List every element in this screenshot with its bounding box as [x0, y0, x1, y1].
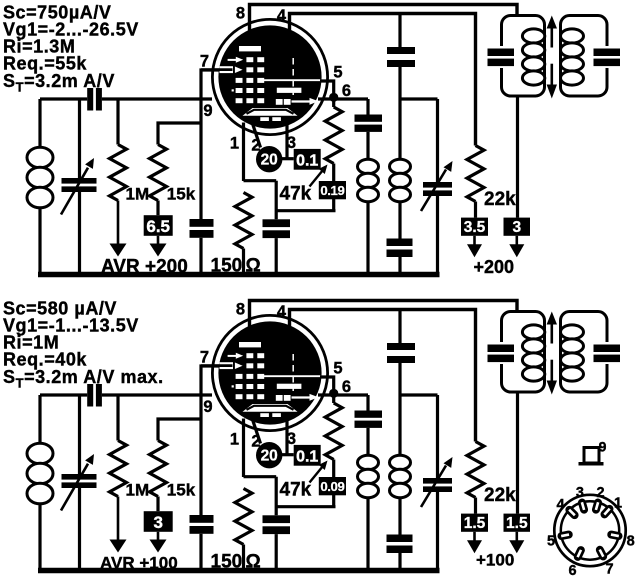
node pin6 junction dot [329, 93, 338, 102]
wire pin9 drop [199, 395, 202, 515]
svg-text:3: 3 [153, 513, 162, 532]
capacitor C6 (screen bypass) [387, 47, 415, 67]
resistor R4 47k [325, 97, 342, 210]
svg-text:1: 1 [230, 431, 239, 449]
wire pin6 to anode tank [318, 97, 368, 100]
wire transformer bottom drop [516, 392, 519, 514]
tube V1 (pentode) [201, 19, 328, 134]
svg-text:9: 9 [599, 439, 607, 455]
wire screen cap stub [398, 14, 401, 48]
wire 20 to 0.1 box [282, 157, 294, 160]
svg-text:8: 8 [627, 534, 635, 550]
wire anode rail (pin8) [250, 301, 518, 330]
wire pin3 lead [285, 123, 288, 159]
svg-text:8: 8 [236, 5, 245, 23]
svg-text:7: 7 [200, 53, 209, 71]
coil L1 (antenna coil) [27, 395, 53, 570]
svg-text:20: 20 [261, 448, 278, 465]
svg-text:3: 3 [287, 134, 296, 152]
value box 3 (screen current) [144, 511, 173, 552]
wire pin6 to anode tank [318, 393, 368, 396]
wire screen rail (pin4) [290, 310, 476, 442]
value box 1.5 [461, 514, 488, 554]
coil L5 (secondary) [561, 325, 584, 339]
annotation arrow to 47k [310, 461, 328, 483]
svg-text:0.19: 0.19 [320, 183, 344, 198]
svg-text:15k: 15k [167, 185, 196, 204]
socket pin 4 [564, 504, 581, 521]
coil L2 (interstage primary) [358, 132, 379, 274]
svg-text:4: 4 [557, 497, 565, 513]
wire ground bus [38, 272, 440, 278]
capacitor C5 (anode) [355, 395, 383, 428]
svg-text:1.5: 1.5 [506, 515, 528, 532]
IF transformer T1 right tank [561, 16, 608, 97]
tube V1 (pentode) [201, 315, 328, 430]
svg-text:0.1: 0.1 [296, 152, 318, 169]
coil L5 (secondary) [561, 29, 584, 43]
wire: input tank top [40, 97, 212, 100]
value box 0.1 [294, 149, 321, 170]
capacitor C6 (screen bypass) [387, 343, 415, 363]
svg-text:4: 4 [277, 7, 287, 25]
resistor R2 15k [150, 419, 202, 511]
variable capacitor C1 (tuning) [61, 99, 97, 274]
svg-text:+100: +100 [476, 551, 514, 570]
wire jog to trimmer [400, 97, 438, 100]
value box 3.5 [461, 218, 488, 258]
svg-text:3.5: 3.5 [464, 219, 486, 236]
resistor R5 22k (screen dropper) [467, 146, 484, 218]
wire pin2 lead [253, 421, 261, 444]
resistor R5 22k (screen dropper) [467, 442, 484, 514]
svg-text:6.5: 6.5 [146, 217, 170, 236]
annotation arrow to 47k [310, 165, 328, 187]
coupling arrow down [547, 64, 557, 99]
value box 0.1 [294, 445, 321, 466]
capacitor C2 (coupling) [87, 88, 102, 111]
capacitor C7 (L3 bottom) [387, 535, 413, 571]
wire pin5 [320, 81, 334, 93]
wire pin5 [320, 377, 334, 389]
value box 6.5 (screen current) [144, 215, 173, 256]
svg-text:5: 5 [333, 64, 342, 82]
wire pin2 lead [253, 125, 261, 148]
coil L4 (primary) [522, 29, 544, 43]
svg-text:3: 3 [512, 219, 521, 236]
IF transformer T1 right tank [561, 312, 608, 393]
pin cap 20 (circle) [256, 146, 282, 172]
wire transformer bottom drop [516, 96, 519, 218]
coil L2 (interstage primary) [358, 428, 379, 570]
socket pin 6 [572, 545, 586, 562]
capacitor C10 (secondary tank) [594, 345, 621, 363]
wire ground bus [38, 568, 440, 574]
svg-text:47k: 47k [280, 184, 312, 205]
IF transformer T1 left tank [502, 16, 545, 97]
svg-text:+200: +200 [474, 257, 515, 277]
value box 1.5 [504, 514, 531, 554]
variable capacitor C8 (trimmer) [421, 395, 453, 570]
svg-text:1.5: 1.5 [464, 515, 486, 532]
value box 3 [504, 218, 531, 258]
svg-text:2: 2 [251, 137, 260, 155]
wire pin3 lead [285, 419, 288, 455]
svg-text:3: 3 [576, 485, 584, 501]
wire cathode network [244, 181, 336, 220]
svg-text:6: 6 [342, 378, 351, 396]
svg-text:5: 5 [547, 534, 555, 550]
coil L1 (antenna coil) [27, 99, 53, 274]
socket pin 5 [557, 530, 574, 541]
svg-text:20: 20 [261, 152, 278, 169]
svg-text:9: 9 [203, 102, 212, 120]
svg-text:22k: 22k [484, 189, 516, 210]
value box 0.19 [319, 181, 346, 199]
wire pin9 drop [199, 99, 202, 219]
socket pin 7 [594, 544, 608, 561]
svg-text:ST=3.2m A/V max.: ST=3.2m A/V max. [3, 367, 164, 391]
coupling arrow down [547, 360, 557, 395]
svg-text:0.1: 0.1 [296, 448, 318, 465]
resistor R3 150 ohm (cathode) [235, 193, 252, 275]
svg-text:1M: 1M [126, 481, 150, 500]
svg-text:9: 9 [203, 398, 212, 416]
wire cathode network [244, 477, 336, 516]
resistor R1 1M (grid leak) [110, 395, 127, 553]
socket pin 1 [599, 503, 615, 520]
variable capacitor C8 (trimmer) [421, 99, 453, 274]
coil L4 (primary) [522, 325, 544, 339]
resistor R2 15k [150, 123, 202, 215]
resistor R1 1M (grid leak) [110, 99, 127, 257]
tube socket pinout (bottom view) [554, 495, 625, 566]
svg-text:8: 8 [236, 301, 245, 319]
svg-text:0.09: 0.09 [320, 479, 344, 494]
wire pin7 riser [201, 70, 219, 99]
svg-text:15k: 15k [167, 481, 196, 500]
value box 0.09 [319, 477, 346, 495]
capacitor C4 (cathode bypass right) [263, 219, 291, 274]
svg-text:2: 2 [251, 433, 260, 451]
svg-text:6: 6 [342, 82, 351, 100]
svg-text:2: 2 [597, 485, 605, 501]
IF transformer T1 left tank [502, 312, 545, 393]
capacitor C7 (L3 bottom) [387, 239, 413, 275]
svg-text:7: 7 [200, 349, 209, 367]
wire jog to trimmer [400, 393, 438, 396]
wire: input tank top [40, 393, 212, 396]
capacitor C9 (primary tank) [488, 49, 515, 67]
svg-text:47k: 47k [280, 480, 312, 501]
socket pin 8 [607, 530, 624, 541]
svg-text:22k: 22k [484, 485, 516, 506]
wire screen rail (pin4) [290, 14, 476, 146]
svg-text:3: 3 [287, 430, 296, 448]
coupling arrow up [547, 16, 557, 48]
svg-text:6: 6 [568, 563, 576, 577]
coil L3 (interstage secondary) [390, 363, 411, 535]
svg-text:1: 1 [614, 496, 622, 512]
capacitor C3 (cathode bypass) [190, 219, 214, 274]
variable capacitor C1 (tuning) [61, 395, 97, 570]
pin cap 20 (circle) [256, 442, 282, 468]
resistor R4 47k [325, 393, 342, 506]
wire pin7 riser [201, 366, 219, 395]
socket pin 3 [577, 498, 589, 515]
wire pin1 (cathode) [242, 419, 245, 478]
node pin6 junction dot [329, 389, 338, 398]
top cap symbol [579, 448, 604, 464]
svg-text:5: 5 [333, 360, 342, 378]
svg-text:4: 4 [277, 303, 287, 321]
wire screen cap stub [398, 310, 401, 344]
coil L3 (interstage secondary) [390, 67, 411, 239]
svg-text:1M: 1M [126, 185, 150, 204]
capacitor C9 (primary tank) [488, 345, 515, 363]
wire pin1 (cathode) [242, 123, 245, 182]
coupling arrow up [547, 312, 557, 344]
resistor R3 150 ohm (cathode) [235, 489, 252, 571]
wire anode rail (pin8) [250, 5, 518, 34]
svg-text:7: 7 [606, 562, 614, 577]
wire 20 to 0.1 box [282, 453, 294, 456]
svg-text:1: 1 [230, 135, 239, 153]
capacitor C3 (cathode bypass) [190, 515, 214, 570]
socket pin 2 [591, 498, 603, 515]
capacitor C10 (secondary tank) [594, 49, 621, 67]
capacitor C2 (coupling) [87, 384, 102, 407]
capacitor C4 (cathode bypass right) [263, 515, 291, 570]
capacitor C5 (anode) [355, 99, 383, 132]
